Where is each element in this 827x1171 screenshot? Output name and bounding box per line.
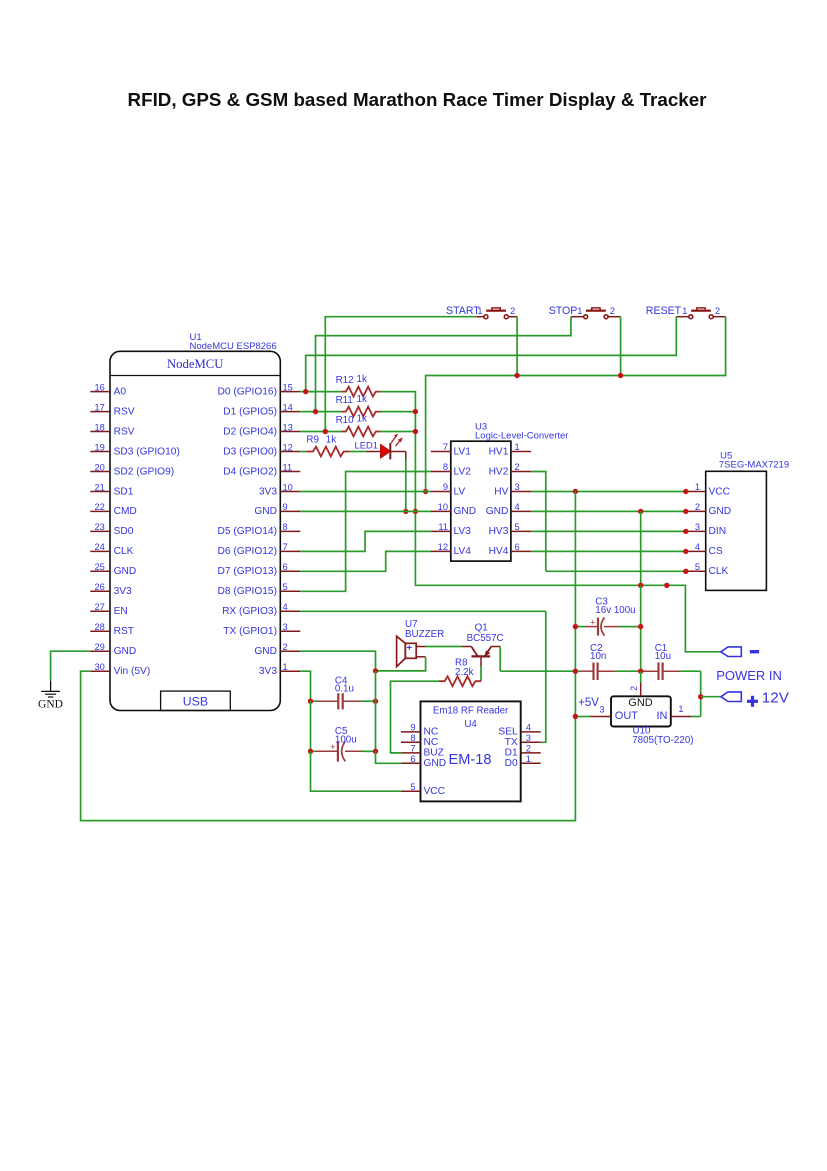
- U3 pin 12 LV4: [431, 542, 471, 557]
- svg-text:R10: R10: [336, 415, 355, 426]
- svg-text:5: 5: [283, 582, 288, 592]
- svg-text:RSV: RSV: [114, 426, 135, 437]
- U1 pin 3 TX (GPIO1): [223, 622, 300, 637]
- svg-text:D4 (GPIO2): D4 (GPIO2): [223, 466, 277, 477]
- svg-text:LV4: LV4: [454, 546, 472, 557]
- wire D6 to LV3: [300, 531, 431, 551]
- svg-text:TX: TX: [505, 737, 518, 748]
- wire HV4 to CS: [531, 550, 686, 552]
- svg-text:CMD: CMD: [114, 506, 137, 517]
- svg-text:D0: D0: [505, 758, 518, 769]
- junction U5 GND: [683, 509, 688, 514]
- junction C4 right: [373, 699, 378, 704]
- svg-text:10: 10: [283, 482, 293, 492]
- svg-text:R11: R11: [336, 395, 353, 406]
- svg-text:GND: GND: [254, 646, 277, 657]
- svg-text:HV3: HV3: [489, 526, 509, 537]
- U1 reference label: [190, 332, 277, 352]
- U1 pin 28 RST: [90, 622, 134, 637]
- svg-text:NC: NC: [424, 727, 439, 738]
- U10 pin 1 IN: [671, 704, 701, 717]
- R12 value label 1k: [336, 374, 367, 386]
- svg-text:13: 13: [283, 422, 293, 432]
- U3 pin 1 HV1: [489, 442, 531, 457]
- capacitor C1: [641, 663, 701, 681]
- wire C1 to IN and +12V: [700, 671, 702, 716]
- svg-text:8: 8: [443, 462, 448, 472]
- U3 pin 6 HV4: [489, 542, 531, 557]
- svg-text:3V3: 3V3: [259, 666, 277, 677]
- C1 labels 10u: [655, 643, 671, 662]
- svg-text:2: 2: [629, 686, 639, 691]
- resistor R8: [439, 676, 481, 686]
- svg-text:6: 6: [283, 562, 288, 572]
- junction R11 right: [413, 409, 418, 414]
- wire Q1 base to R8: [480, 666, 482, 681]
- U3 pin 9 LV: [431, 482, 466, 497]
- junction RESET wire D0: [303, 389, 308, 394]
- U1 pin 19 SD3 (GPIO10): [90, 442, 180, 457]
- svg-text:3: 3: [515, 482, 520, 492]
- U4 pin 2 D1: [505, 744, 541, 759]
- U1 pin 21 SD1: [90, 482, 133, 497]
- U5 pin 1 VCC: [686, 482, 730, 497]
- U10 pin 3 OUT: [575, 705, 611, 717]
- svg-text:Em18 RF Reader: Em18 RF Reader: [433, 705, 509, 716]
- wire C4 to C5 right rail: [375, 671, 377, 701]
- junction LED1 to GND row: [403, 509, 408, 514]
- svg-text:BUZZER: BUZZER: [405, 629, 444, 640]
- wire STOP pin1 to D1: [316, 317, 571, 412]
- svg-text:1k: 1k: [357, 374, 367, 385]
- op-amp U1 NodeMCU ESP8266 body: [110, 351, 280, 710]
- connector POWER IN plus: [721, 692, 741, 702]
- junction STOP pin2: [618, 373, 623, 378]
- svg-text:OUT: OUT: [615, 710, 639, 722]
- svg-text:27: 27: [94, 602, 104, 612]
- C5 labels 100u: [335, 726, 357, 746]
- svg-text:1: 1: [678, 704, 683, 714]
- svg-text:24: 24: [94, 542, 104, 552]
- ground: [38, 681, 63, 710]
- U3 reference label: [475, 422, 568, 442]
- svg-text:GND: GND: [709, 506, 732, 517]
- wire Vin pin30 to 5V rail: [81, 671, 576, 820]
- svg-text:9: 9: [410, 723, 415, 733]
- junction STOP wire D1: [313, 409, 318, 414]
- wire +12V tap to connector: [701, 696, 721, 698]
- svg-text:14: 14: [283, 402, 293, 412]
- U1 pin 11 D4 (GPIO2): [223, 462, 300, 477]
- svg-text:9: 9: [443, 482, 448, 492]
- op-amp U3 Logic-Level-Converter body: [451, 441, 511, 561]
- svg-text:RSV: RSV: [114, 406, 135, 417]
- U4 pin 9 NC: [401, 723, 438, 738]
- capacitor C5: [311, 741, 376, 761]
- U3 pin 2 HV2: [489, 462, 531, 477]
- junction U5 CS: [683, 549, 688, 554]
- svg-text:+: +: [590, 617, 596, 628]
- wire U3 GND to U5 GND: [531, 510, 686, 512]
- U1 pin 20 SD2 (GPIO9): [90, 462, 174, 477]
- U1 pin 27 EN: [90, 602, 127, 617]
- wire 3V3 to LV: [300, 491, 431, 493]
- svg-text:STOP: STOP: [549, 305, 578, 317]
- op-amp U5 7SEG-MAX7219 body: [706, 471, 767, 590]
- svg-text:5: 5: [410, 782, 415, 792]
- svg-text:21: 21: [94, 482, 104, 492]
- svg-text:2: 2: [526, 744, 531, 754]
- capacitor C2: [575, 663, 640, 681]
- svg-text:23: 23: [94, 522, 104, 532]
- U1 pin 15 D0 (GPIO16): [218, 382, 301, 397]
- wire GND pin29 to ground: [51, 651, 91, 681]
- svg-text:U4: U4: [464, 719, 477, 730]
- junction GND horizontal B: [664, 583, 669, 588]
- wire EM18 TX vertical: [541, 611, 546, 742]
- svg-text:HV4: HV4: [489, 546, 509, 557]
- svg-text:5: 5: [695, 562, 700, 572]
- svg-text:HV2: HV2: [489, 466, 509, 477]
- U1 pin 12 D3 (GPIO0): [223, 442, 300, 457]
- svg-text:12V: 12V: [762, 690, 790, 707]
- switch RESET S3: [646, 305, 726, 319]
- wire GND vertical to GND horizontal: [415, 511, 640, 585]
- R8 value label 2.2k: [455, 657, 474, 678]
- svg-text:A0: A0: [114, 386, 127, 397]
- svg-text:28: 28: [94, 622, 104, 632]
- svg-text:16: 16: [94, 382, 104, 392]
- wire C4 to C5 left rail: [310, 701, 312, 751]
- svg-text:NodeMCU: NodeMCU: [167, 357, 223, 371]
- svg-text:10: 10: [438, 502, 448, 512]
- svg-text:CS: CS: [709, 546, 723, 557]
- wire Q1 emitter down: [499, 647, 501, 672]
- U4 pin 7 BUZ: [401, 744, 444, 759]
- junction U5 CLK: [683, 569, 688, 574]
- svg-text:SD0: SD0: [114, 526, 134, 537]
- wire CLK row: [546, 570, 686, 572]
- plus 12V label: [747, 690, 790, 707]
- wire D8 to LV2: [300, 472, 431, 592]
- svg-text:+: +: [407, 643, 413, 654]
- wire buttons common 3V3 net: [516, 317, 518, 376]
- svg-text:1: 1: [526, 754, 531, 764]
- svg-text:D6 (GPIO12): D6 (GPIO12): [218, 546, 277, 557]
- wire GND pin2 to buzzer minus: [300, 651, 375, 671]
- svg-text:30: 30: [94, 662, 104, 672]
- junction C2 C1 GND rail: [638, 669, 643, 674]
- resistor R10: [341, 427, 380, 437]
- wire C5 left to VCC pin5: [311, 751, 402, 791]
- svg-text:GND: GND: [424, 758, 447, 769]
- svg-text:10n: 10n: [590, 651, 606, 662]
- svg-text:25: 25: [94, 562, 104, 572]
- svg-text:26: 26: [94, 582, 104, 592]
- svg-text:D2 (GPIO4): D2 (GPIO4): [223, 426, 277, 437]
- connector POWER IN minus: [721, 647, 741, 657]
- junction U10 OUT to 5V rail: [573, 714, 578, 719]
- svg-text:POWER IN: POWER IN: [716, 668, 782, 683]
- svg-text:7: 7: [443, 442, 448, 452]
- svg-text:2: 2: [715, 306, 720, 316]
- U1 USB connector box: [161, 691, 231, 710]
- svg-text:12: 12: [438, 542, 448, 552]
- U10 pin 2 GND: [629, 671, 641, 696]
- svg-text:4: 4: [283, 602, 288, 612]
- svg-text:11: 11: [438, 522, 448, 532]
- svg-text:GND: GND: [628, 697, 653, 709]
- wire RX to EM18 TX: [300, 610, 546, 612]
- svg-text:HV: HV: [494, 486, 508, 497]
- U4 pin 6 GND: [401, 754, 446, 769]
- switch STOP S2: [549, 305, 621, 319]
- U5 pin 5 CLK: [686, 562, 729, 577]
- svg-text:29: 29: [94, 642, 104, 652]
- junction GND rail top at GND row: [638, 509, 643, 514]
- svg-text:RST: RST: [114, 626, 134, 637]
- R9 value label 1k: [306, 435, 336, 446]
- U3 pin 3 HV: [494, 482, 531, 497]
- svg-text:1: 1: [695, 482, 700, 492]
- svg-text:4: 4: [515, 502, 520, 512]
- U4 pin 4 SEL: [498, 723, 540, 738]
- svg-text:11: 11: [283, 462, 293, 472]
- svg-text:16v 100u: 16v 100u: [595, 605, 635, 616]
- wire R9 to LED1: [350, 451, 366, 453]
- svg-text:VCC: VCC: [709, 486, 731, 497]
- wire GND horizontal to minus: [641, 584, 667, 586]
- svg-text:3: 3: [283, 622, 288, 632]
- junction buzzer GND rail: [373, 668, 378, 673]
- svg-text:D7 (GPIO13): D7 (GPIO13): [218, 566, 277, 577]
- U3 pin 4 GND: [486, 502, 531, 517]
- U1 pin 23 SD0: [90, 522, 133, 537]
- svg-text:GND: GND: [114, 566, 137, 577]
- junction 5V rail top at VCC row: [573, 489, 578, 494]
- U1 pin 30 Vin (5V): [90, 662, 150, 677]
- svg-text:3V3: 3V3: [259, 486, 277, 497]
- svg-text:2: 2: [695, 502, 700, 512]
- LED LED1: [366, 434, 403, 460]
- svg-text:LED1: LED1: [355, 440, 378, 451]
- wire D3 to R9: [300, 451, 306, 453]
- Q1 BC557C labels: [467, 623, 504, 644]
- svg-text:2.2k: 2.2k: [455, 667, 474, 678]
- wire D0 to R12: [300, 391, 341, 393]
- R10 value label 1k: [336, 414, 367, 426]
- wire R10 to GND rail: [380, 431, 415, 433]
- svg-text:DIN: DIN: [709, 526, 727, 537]
- U4 pin 5 VCC: [401, 782, 445, 797]
- svg-text:RFID, GPS & GSM based Marathon: RFID, GPS & GSM based Marathon Race Time…: [128, 89, 708, 110]
- capacitor C4: [311, 693, 376, 709]
- svg-text:7805(TO-220): 7805(TO-220): [632, 735, 693, 746]
- wire GND vertical R10 to GND row: [414, 432, 416, 512]
- wire HV3 to DIN: [531, 530, 686, 532]
- U1 pin 14 D1 (GPIO5): [223, 402, 300, 417]
- svg-text:9: 9: [283, 502, 288, 512]
- svg-text:D5 (GPIO14): D5 (GPIO14): [218, 526, 277, 537]
- svg-text:GND: GND: [454, 506, 477, 517]
- junction C2 left: [573, 669, 578, 674]
- svg-text:HV1: HV1: [489, 446, 509, 457]
- wire D7 to LV4: [300, 551, 431, 571]
- U4 pin 3 TX: [505, 733, 541, 748]
- wire 3V3 pin1 to C4 rail: [300, 671, 310, 701]
- svg-text:4: 4: [526, 723, 531, 733]
- U5 pin 3 DIN: [686, 522, 726, 537]
- U1 pin 18 RSV: [90, 422, 134, 437]
- svg-text:1: 1: [283, 662, 288, 672]
- svg-text:15: 15: [283, 382, 293, 392]
- svg-text:USB: USB: [183, 695, 208, 709]
- U3 pin 7 LV1: [431, 442, 471, 457]
- svg-text:LV1: LV1: [454, 446, 472, 457]
- svg-text:R9: R9: [306, 435, 319, 446]
- U1 pin 16 A0: [90, 382, 126, 397]
- wire HV2 to EM18 TX chain: [531, 472, 546, 572]
- svg-text:18: 18: [94, 422, 104, 432]
- U1 pin 17 RSV: [90, 402, 134, 417]
- svg-text:8: 8: [283, 522, 288, 532]
- svg-text:3V3: 3V3: [114, 586, 132, 597]
- U1 pin 2 GND: [254, 642, 300, 657]
- svg-text:TX (GPIO1): TX (GPIO1): [223, 626, 277, 637]
- R11 value label 1k: [336, 394, 367, 406]
- RFID reader U4 EM-18 body: [421, 701, 521, 801]
- svg-text:NC: NC: [424, 737, 439, 748]
- junction C5 right: [373, 749, 378, 754]
- wire RESET pin1 to D0: [306, 317, 677, 392]
- C3 labels 16v 100u: [595, 597, 635, 616]
- U1 pin 24 CLK: [90, 542, 133, 557]
- junction U5 DIN: [683, 529, 688, 534]
- U3 pin 10 GND: [431, 502, 476, 517]
- svg-text:17: 17: [94, 402, 104, 412]
- svg-text:LV: LV: [454, 486, 466, 497]
- U1 pin 1 3V3: [259, 662, 300, 677]
- wire Q1 emitter to 5V rail: [500, 670, 575, 672]
- svg-text:3: 3: [599, 705, 604, 715]
- C4 labels 0.1u: [335, 675, 354, 694]
- svg-text:BUZ: BUZ: [424, 748, 444, 759]
- svg-text:1k: 1k: [357, 394, 367, 405]
- minus sign: [750, 650, 759, 653]
- wire GND rail vertical: [640, 511, 642, 585]
- svg-text:19: 19: [94, 442, 104, 452]
- U1 pin 29 GND: [90, 642, 136, 657]
- svg-text:1: 1: [682, 306, 687, 316]
- junction GND vertical at GND row: [413, 509, 418, 514]
- svg-text:EN: EN: [114, 606, 128, 617]
- junction GND horizontal A: [638, 583, 643, 588]
- svg-text:SD2 (GPIO9): SD2 (GPIO9): [114, 466, 175, 477]
- wire R11 to GND rail: [380, 411, 415, 413]
- junction R10 right: [413, 429, 418, 434]
- svg-text:GND: GND: [486, 506, 509, 517]
- resistor R9: [307, 447, 351, 457]
- U5 pin 2 GND: [686, 502, 731, 517]
- switch START S1: [446, 305, 517, 319]
- U1 pin 8 D5 (GPIO14): [218, 522, 301, 537]
- U1 pin 26 3V3: [90, 582, 132, 597]
- resistor R11: [341, 407, 380, 417]
- wire buzzer plus to Q1: [426, 646, 462, 648]
- svg-text:+5V: +5V: [578, 697, 599, 709]
- svg-text:VCC: VCC: [424, 786, 446, 797]
- svg-text:7SEG-MAX7219: 7SEG-MAX7219: [719, 460, 789, 471]
- svg-text:START: START: [446, 305, 480, 317]
- transistor Q1 BC557C: [462, 647, 500, 667]
- U1 pin 9 GND: [254, 502, 300, 517]
- svg-text:IN: IN: [657, 710, 668, 722]
- resistor R12: [341, 387, 380, 397]
- svg-text:4: 4: [695, 542, 700, 552]
- U5 pin 4 CS: [686, 542, 723, 557]
- buzzer U7: [397, 636, 426, 666]
- svg-text:Vin (5V): Vin (5V): [114, 666, 151, 677]
- svg-text:6: 6: [410, 754, 415, 764]
- svg-text:8: 8: [410, 733, 415, 743]
- svg-text:100u: 100u: [335, 735, 357, 746]
- svg-text:RESET: RESET: [646, 305, 682, 317]
- svg-text:20: 20: [94, 462, 104, 472]
- wire 5V rail vertical: [574, 492, 576, 627]
- svg-text:0.1u: 0.1u: [335, 684, 354, 695]
- junction START wire D2: [323, 429, 328, 434]
- svg-text:2: 2: [510, 306, 515, 316]
- wire buzzer minus path: [376, 657, 426, 671]
- svg-text:1: 1: [515, 442, 520, 452]
- wire GND to U3 GND: [300, 510, 431, 512]
- wire R8 to EM18 BUZ: [391, 681, 440, 753]
- capacitor C3: [575, 617, 640, 635]
- svg-text:CLK: CLK: [114, 546, 134, 557]
- junction +12V tap: [698, 694, 703, 699]
- svg-text:3: 3: [526, 733, 531, 743]
- svg-text:D1: D1: [505, 748, 518, 759]
- svg-text:SD1: SD1: [114, 486, 134, 497]
- wire GND rail C3 to C2 row: [640, 627, 642, 672]
- C2 labels 10n: [590, 643, 606, 662]
- svg-text:3: 3: [695, 522, 700, 532]
- svg-text:BC557C: BC557C: [467, 633, 504, 644]
- U4 pin 8 NC: [401, 733, 438, 748]
- U1 pin 22 CMD: [90, 502, 137, 517]
- svg-text:R12: R12: [336, 375, 354, 386]
- wire GND rail to C3: [640, 585, 642, 626]
- svg-text:EM-18: EM-18: [449, 752, 492, 768]
- junction C3 left: [573, 624, 578, 629]
- svg-text:D3 (GPIO0): D3 (GPIO0): [223, 446, 277, 457]
- svg-text:22: 22: [94, 502, 104, 512]
- svg-text:RX (GPIO3): RX (GPIO3): [222, 606, 277, 617]
- U1 pin 4 RX (GPIO3): [222, 602, 300, 617]
- svg-text:1k: 1k: [326, 435, 336, 446]
- junction C4 left: [308, 699, 313, 704]
- svg-text:LV2: LV2: [454, 466, 472, 477]
- U1 pin 7 D6 (GPIO12): [218, 542, 301, 557]
- wire START pin1 to D2: [325, 317, 476, 432]
- svg-text:6: 6: [515, 542, 520, 552]
- wire C5 right to EM18 GND: [376, 751, 402, 763]
- wire R12 to GND rail: [380, 392, 415, 412]
- svg-text:GND: GND: [38, 698, 63, 710]
- U1 pin 13 D2 (GPIO4): [223, 422, 300, 437]
- svg-text:7: 7: [410, 744, 415, 754]
- svg-text:LV3: LV3: [454, 526, 472, 537]
